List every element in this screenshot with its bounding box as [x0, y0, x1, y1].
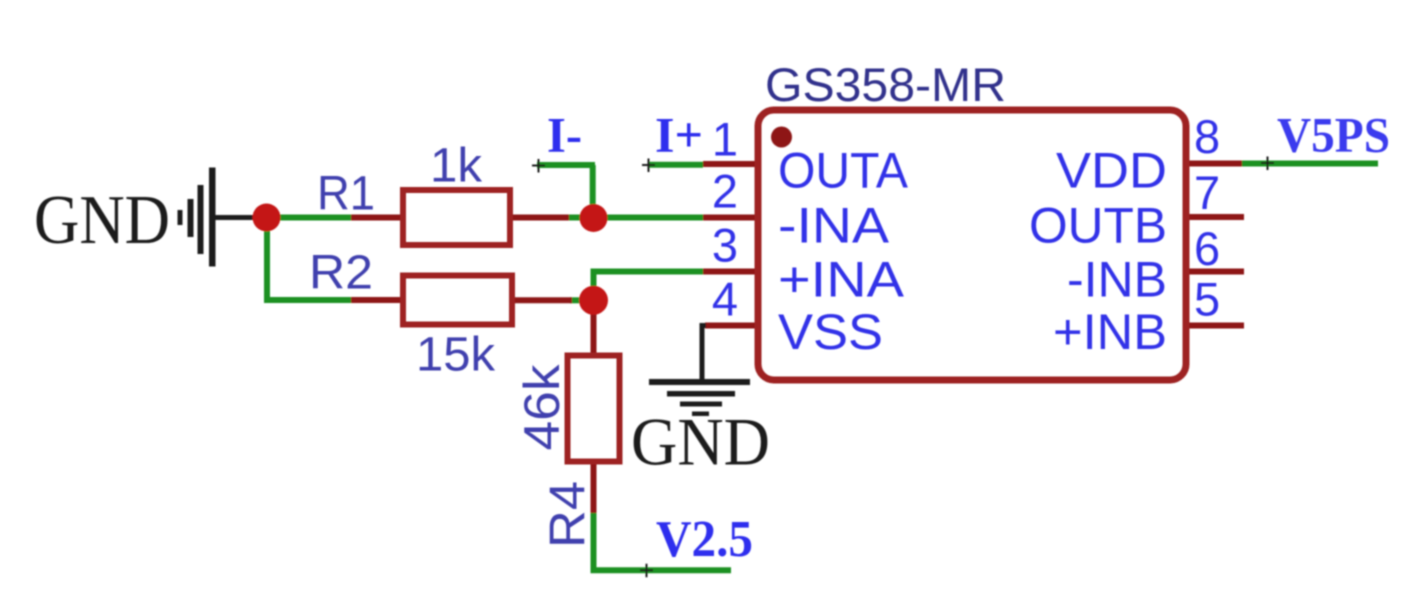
svg-text:3: 3 — [712, 219, 738, 272]
svg-text:46k: 46k — [514, 363, 570, 450]
svg-text:V5PS: V5PS — [1277, 107, 1390, 163]
svg-text:+INA: +INA — [778, 252, 905, 308]
svg-text:VSS: VSS — [778, 304, 883, 360]
svg-text:OUTB: OUTB — [1029, 198, 1167, 254]
svg-text:-INB: -INB — [1067, 252, 1167, 308]
svg-text:I-: I- — [547, 107, 582, 163]
svg-text:7: 7 — [1194, 166, 1220, 219]
svg-text:4: 4 — [712, 273, 738, 326]
svg-text:I+: I+ — [655, 107, 703, 163]
svg-text:5: 5 — [1194, 273, 1220, 326]
svg-text:R4: R4 — [540, 481, 596, 548]
svg-text:OUTA: OUTA — [778, 143, 909, 199]
svg-text:2: 2 — [712, 165, 738, 218]
svg-text:6: 6 — [1194, 222, 1220, 275]
svg-text:8: 8 — [1194, 110, 1220, 163]
svg-text:GND: GND — [631, 404, 770, 480]
svg-text:GND: GND — [34, 182, 170, 259]
svg-text:V2.5: V2.5 — [656, 511, 753, 568]
svg-text:GS358-MR: GS358-MR — [765, 58, 1006, 111]
svg-text:1k: 1k — [430, 140, 483, 193]
svg-text:R2: R2 — [309, 247, 373, 300]
svg-text:+INB: +INB — [1053, 304, 1167, 360]
svg-text:1: 1 — [712, 113, 738, 166]
svg-text:15k: 15k — [416, 329, 496, 382]
svg-text:R1: R1 — [317, 168, 375, 221]
svg-text:-INA: -INA — [778, 198, 890, 254]
svg-text:VDD: VDD — [1056, 143, 1167, 199]
